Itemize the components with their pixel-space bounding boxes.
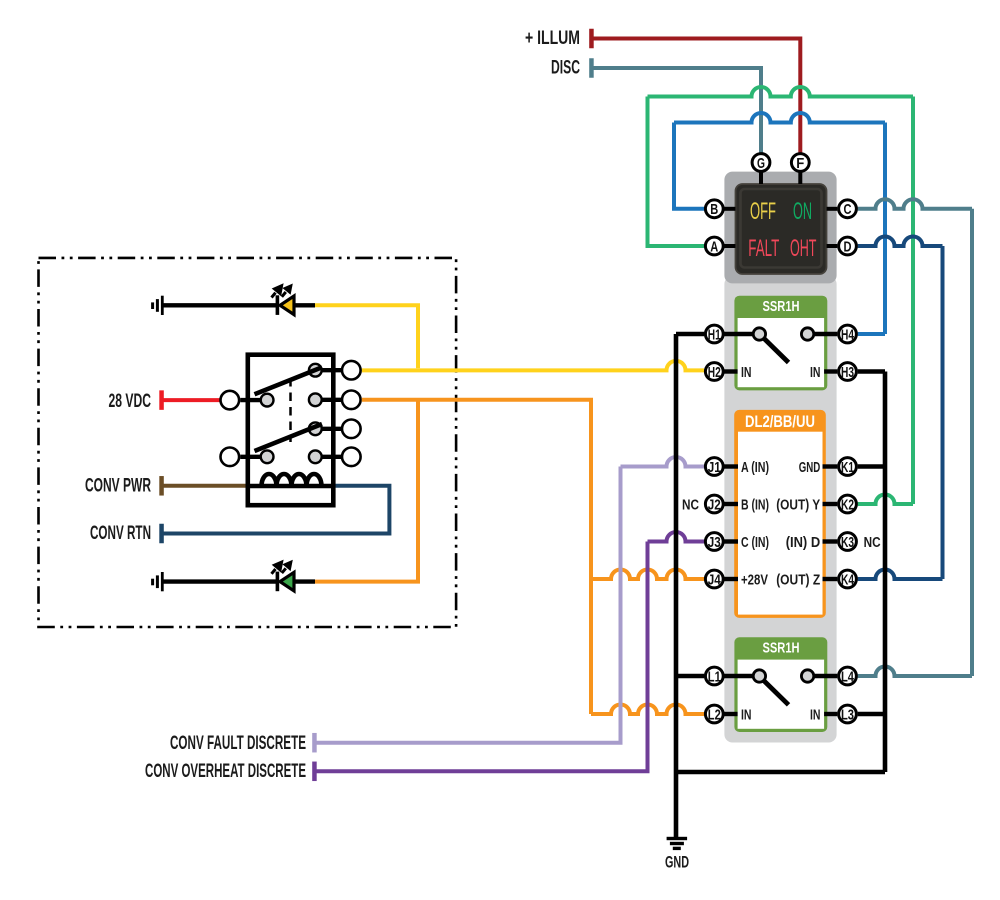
wire green: A to K2	[648, 97, 705, 247]
terminal J2	[705, 495, 723, 513]
svg-text:K2: K2	[841, 496, 854, 513]
relay coil	[248, 474, 333, 486]
svg-text:(OUT) Z: (OUT) Z	[776, 572, 820, 589]
wire orange: branch to L2	[591, 705, 704, 715]
SSR1H (top) switch	[764, 338, 789, 363]
wire black: bottom bus	[676, 770, 885, 775]
panel strip (light gray)	[724, 276, 836, 743]
display bezel	[736, 184, 827, 274]
svg-text:K1: K1	[841, 459, 854, 476]
svg-text:DL2/BB/UU: DL2/BB/UU	[745, 413, 815, 431]
svg-text:H3: H3	[841, 364, 854, 381]
terminal K2	[839, 495, 857, 513]
svg-text:G: G	[757, 155, 765, 172]
svg-text:F: F	[796, 155, 804, 172]
svg-text:CONV OVERHEAT DISCRETE: CONV OVERHEAT DISCRETE	[145, 761, 306, 782]
relay box	[248, 355, 333, 506]
wire: K1 stub	[823, 464, 838, 468]
wire red: 28 VDC to relay	[162, 398, 221, 402]
svg-text:H2: H2	[708, 364, 721, 381]
svg-text:IN: IN	[810, 364, 821, 381]
svg-text:K4: K4	[841, 571, 854, 588]
wire: bottom LED stub (black)	[294, 579, 315, 583]
svg-text:C: C	[844, 201, 852, 218]
svg-text:B (IN): B (IN)	[741, 497, 769, 514]
svg-text:CONV RTN: CONV RTN	[90, 523, 151, 544]
SSR1H (bottom) switch	[764, 680, 789, 705]
svg-text:J4: J4	[708, 571, 722, 588]
wire dark red: + ILLUM to F	[594, 39, 801, 154]
wire: H3 stub	[824, 369, 837, 373]
wire: K3 stub	[823, 539, 838, 543]
svg-text:L1: L1	[708, 668, 721, 685]
wire black: right bus	[883, 372, 888, 773]
terminal H1	[705, 325, 723, 343]
terminal J3	[705, 533, 723, 551]
svg-text:+28V: +28V	[741, 572, 768, 589]
wire: L4 stub to switch	[814, 674, 837, 678]
svg-text:28 VDC: 28 VDC	[109, 391, 152, 412]
wire teal: C to L4	[858, 199, 972, 208]
relay contact dots	[261, 364, 322, 463]
relay mechanical link (dashed)	[289, 378, 292, 442]
svg-text:CONV FAULT DISCRETE: CONV FAULT DISCRETE	[170, 733, 306, 754]
wire: H4 stub to switch	[814, 332, 837, 336]
tick 28 VDC (red)	[159, 390, 164, 410]
tick CONV PWR (brown)	[159, 476, 164, 496]
terminal C	[839, 200, 857, 218]
terminal H4	[839, 325, 857, 343]
svg-text:K3: K3	[841, 534, 854, 551]
enclosure dash-dot border	[39, 258, 457, 627]
svg-text:DISC: DISC	[551, 58, 580, 79]
wire black: ground stem	[674, 772, 679, 838]
LED DS1 (yellow)	[272, 283, 295, 315]
wire black: L3 feed	[858, 712, 885, 716]
tick + ILLUM (dark red)	[589, 29, 594, 49]
svg-text:GND: GND	[799, 459, 821, 476]
svg-text:L3: L3	[841, 706, 854, 723]
svg-text:B: B	[710, 201, 718, 218]
terminal L2	[705, 705, 723, 723]
display terminal stubs	[725, 172, 838, 246]
relay terminal stubs	[240, 370, 341, 457]
wire: J2 stub	[725, 502, 739, 506]
svg-text:+ ILLUM: + ILLUM	[525, 28, 580, 49]
tick CONV OVERHEAT (purple)	[312, 762, 317, 782]
svg-text:C (IN): C (IN)	[741, 534, 769, 551]
terminal K1	[839, 458, 857, 476]
terminal K3	[839, 533, 857, 551]
svg-text:A: A	[710, 238, 718, 255]
relay pin circles	[221, 361, 361, 466]
wire navy: D to K4	[858, 237, 943, 247]
ground (bottom LED)	[151, 572, 164, 591]
wire blue: B to H4	[674, 123, 704, 209]
terminal D	[839, 237, 857, 255]
ground GND symbol	[667, 837, 688, 850]
svg-text:OHT: OHT	[790, 235, 817, 262]
svg-text:ON: ON	[793, 198, 812, 225]
wire: K4 stub	[823, 577, 838, 581]
wire purple: CONV OVERHEAT to J3	[317, 542, 648, 772]
terminal L1	[705, 667, 723, 685]
wire yellow: relay to H2	[362, 361, 704, 371]
svg-text:OFF: OFF	[750, 198, 776, 225]
wire: J3 stub	[725, 539, 739, 543]
LED DS2 (green)	[272, 560, 295, 592]
indicator module backing (gray)	[724, 172, 836, 284]
terminal H2	[705, 363, 723, 381]
terminal L4	[839, 667, 857, 685]
svg-text:NC: NC	[682, 497, 699, 514]
SSR1H module (top) box	[734, 296, 827, 391]
DL2/BB/UU box	[734, 410, 826, 618]
tick CONV FAULT (lavender)	[312, 733, 317, 753]
terminal B	[705, 200, 723, 218]
wire black: K1 feed	[858, 464, 885, 468]
wire: L2 stub	[725, 712, 738, 716]
svg-text:SSR1H: SSR1H	[763, 299, 800, 315]
svg-text:J3: J3	[708, 534, 721, 551]
terminal L3	[839, 705, 857, 723]
tick CONV RTN (navy)	[159, 524, 164, 544]
wire brown: CONV PWR to coil	[162, 484, 249, 488]
svg-text:(OUT) Y: (OUT) Y	[776, 497, 820, 514]
terminal J4	[705, 570, 723, 588]
wire: J1 stub	[725, 464, 739, 468]
terminal J1	[705, 458, 723, 476]
relay switch arm 1	[255, 367, 323, 394]
svg-text:SSR1H: SSR1H	[763, 641, 800, 657]
wire black: left bus	[674, 334, 679, 772]
relay switch arm 2	[255, 424, 323, 451]
wire orange: branch to J4	[591, 570, 704, 580]
svg-text:L2: L2	[708, 706, 721, 723]
svg-text:IN: IN	[741, 707, 752, 724]
wire navy: CONV RTN to coil	[162, 486, 389, 534]
wire: bottom ground to LED	[163, 579, 277, 583]
svg-text:CONV PWR: CONV PWR	[85, 475, 151, 496]
terminal G	[752, 154, 770, 172]
svg-text:H1: H1	[708, 326, 721, 343]
wire black: H3 feed	[858, 369, 885, 373]
svg-text:D: D	[844, 238, 852, 255]
wire yellow: LED to relay row	[315, 305, 418, 368]
terminal H3	[839, 363, 857, 381]
wire: H2 stub	[725, 369, 738, 373]
svg-text:A (IN): A (IN)	[741, 459, 769, 476]
svg-text:L4: L4	[841, 668, 854, 685]
wire: H1 stub to switch	[725, 332, 754, 336]
wire orange: relay to panel bus	[362, 400, 591, 714]
wire: K2 stub	[823, 502, 838, 506]
svg-text:J2: J2	[708, 496, 721, 513]
wire teal: DISC to G	[594, 68, 762, 154]
wire orange: LED up to relay row	[315, 400, 418, 582]
svg-text:(IN) D: (IN) D	[786, 534, 821, 551]
svg-text:J1: J1	[708, 459, 721, 476]
svg-text:IN: IN	[810, 707, 821, 724]
tick DISC (teal)	[589, 58, 594, 78]
terminal K4	[839, 570, 857, 588]
terminal A	[705, 237, 723, 255]
wire black: H1 feed	[676, 332, 704, 336]
wire black: L1 feed	[676, 674, 704, 678]
wire: LED stub (black)	[294, 303, 315, 307]
svg-text:IN: IN	[741, 364, 752, 381]
wire: L1 stub to switch	[725, 674, 754, 678]
svg-text:FALT: FALT	[748, 235, 779, 262]
wire: L3 stub	[824, 712, 837, 716]
svg-text:GND: GND	[665, 854, 689, 872]
terminal F	[791, 154, 809, 172]
wire: J4 stub	[725, 577, 739, 581]
svg-text:NC: NC	[864, 534, 881, 551]
wire lavender: CONV FAULT to J1	[317, 467, 621, 743]
ground (top LED)	[151, 296, 164, 315]
SSR1H module (bottom) box	[734, 637, 827, 732]
svg-text:H4: H4	[841, 326, 854, 343]
wire: top ground to LED	[163, 303, 277, 307]
